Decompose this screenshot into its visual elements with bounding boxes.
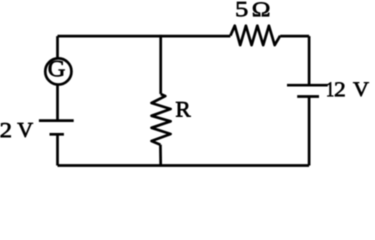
label V (of 2 V) — [18, 123, 33, 137]
label 1 (of 12 V) — [327, 82, 333, 96]
wire middle branch upper — [159, 35, 162, 94]
battery 2V short plate — [50, 133, 64, 136]
wire top (5-ohm resistor to right corner) — [280, 35, 309, 38]
resistor R (vertical zigzag) — [152, 94, 171, 145]
label ohm symbol (of 5 ohm) — [253, 2, 269, 16]
label 2 (of 2 V) — [1, 123, 11, 137]
wire middle branch lower — [159, 145, 162, 166]
wire galvanometer to 2V battery — [56, 85, 59, 121]
label V (of 12 V) — [353, 82, 369, 96]
resistor 5 ohm (horizontal zigzag) — [230, 26, 280, 45]
label G (galvanometer letter) — [49, 61, 65, 77]
wire right branch lower — [308, 97, 311, 166]
battery 12V long plate — [287, 84, 328, 87]
wire right branch upper — [308, 36, 311, 85]
wire left branch bottom — [56, 134, 59, 165]
label 2 (of 12 V) — [335, 82, 345, 96]
label R (resistor name) — [176, 102, 191, 117]
wire bottom — [58, 164, 310, 167]
wire left branch top — [56, 36, 59, 58]
galvanometer G circle — [45, 58, 71, 84]
battery 2V long plate — [39, 119, 74, 122]
wire top (left corner to 5-ohm resistor) — [58, 35, 231, 38]
battery 12V short plate — [297, 95, 319, 98]
label 5 (of 5 ohm) — [237, 2, 248, 16]
